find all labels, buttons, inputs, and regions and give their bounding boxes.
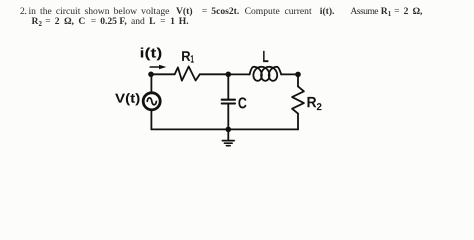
wire R2 to bottom-right corner: [297, 114, 299, 130]
current arrow i(t): [150, 66, 161, 68]
resistor R1: [175, 67, 200, 81]
wire node C to inductor: [228, 73, 249, 75]
inductor L: [250, 67, 282, 81]
arrowhead of i(t): [159, 65, 166, 69]
sine symbol inside source: [147, 98, 156, 105]
ground bar 3: [227, 145, 231, 147]
label R2: [308, 97, 317, 107]
resistor R2: [292, 86, 304, 113]
node at capacitor top: [226, 72, 232, 78]
ground stub: [227, 129, 229, 140]
ground bar 2: [225, 142, 233, 144]
wire capacitor branch upper: [227, 74, 229, 98]
node at ground: [226, 127, 232, 133]
capacitor C bottom plate: [222, 102, 235, 104]
wire source top to top-left node: [150, 74, 152, 92]
node top-right: [295, 72, 301, 78]
wire inductor to right node: [281, 73, 298, 75]
ground bar 1: [222, 140, 234, 142]
capacitor C top plate: [222, 99, 235, 101]
bottom wire: [151, 128, 298, 130]
wire capacitor branch lower: [227, 105, 229, 130]
wire R1 to node C: [200, 73, 229, 75]
label C: [238, 97, 246, 108]
wire top-left node to R1: [151, 73, 175, 75]
wire bottom-left corner up to source: [150, 111, 152, 130]
label V(t): [115, 93, 139, 105]
node top-left: [148, 72, 154, 78]
label R1: [182, 51, 190, 61]
voltage source V circle: [143, 93, 160, 110]
label L: [263, 51, 268, 62]
wire right node down to R2: [297, 74, 299, 86]
label i(t): [141, 48, 162, 61]
